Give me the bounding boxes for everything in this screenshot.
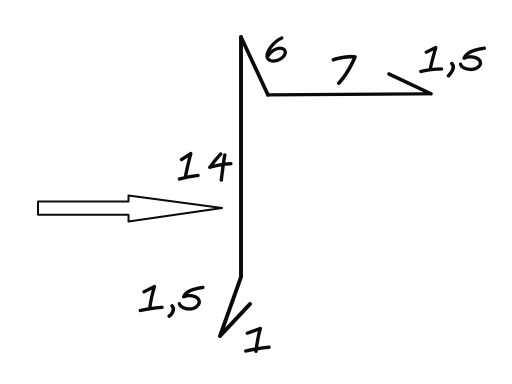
dimension label 6 xyxy=(267,38,285,61)
dimension label 14: digit 4 xyxy=(210,154,231,180)
flashing profile: horizontal top flange xyxy=(268,94,432,95)
dimension label 1,5 (top right): comma xyxy=(449,64,454,76)
dimension label 1,5 (top right): digit 5 xyxy=(461,48,485,69)
dimension label 1,5 (top right): digit 1 xyxy=(421,48,442,72)
direction arrow (outlined, pointing right) xyxy=(38,196,222,222)
flashing profile: vertical leg with bottom kick and hem hook xyxy=(220,37,250,336)
flashing profile: top slope from peak down to flange xyxy=(241,37,268,95)
flashing profile: right end hem hook xyxy=(389,74,431,94)
dimension label 14: digit 1 xyxy=(179,154,198,179)
dimension label 1 (bottom hem) xyxy=(246,329,269,352)
dimension label 1,5 (bottom left): comma xyxy=(169,306,173,316)
dimension label 7 xyxy=(333,57,355,83)
dimension label 1,5 (bottom left): digit 5 xyxy=(179,287,202,309)
dimension label 1,5 (bottom left): digit 1 xyxy=(140,287,162,311)
